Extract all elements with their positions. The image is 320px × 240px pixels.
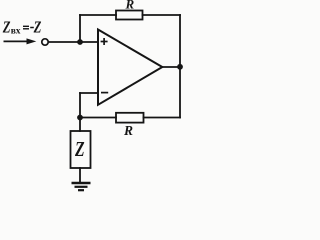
svg-text:Z: Z xyxy=(74,138,84,162)
svg-text:Z: Z xyxy=(33,19,42,37)
svg-text:вх: вх xyxy=(11,27,21,37)
svg-text:R: R xyxy=(123,123,133,138)
svg-text:R: R xyxy=(125,0,135,12)
svg-text:Z: Z xyxy=(2,19,11,37)
